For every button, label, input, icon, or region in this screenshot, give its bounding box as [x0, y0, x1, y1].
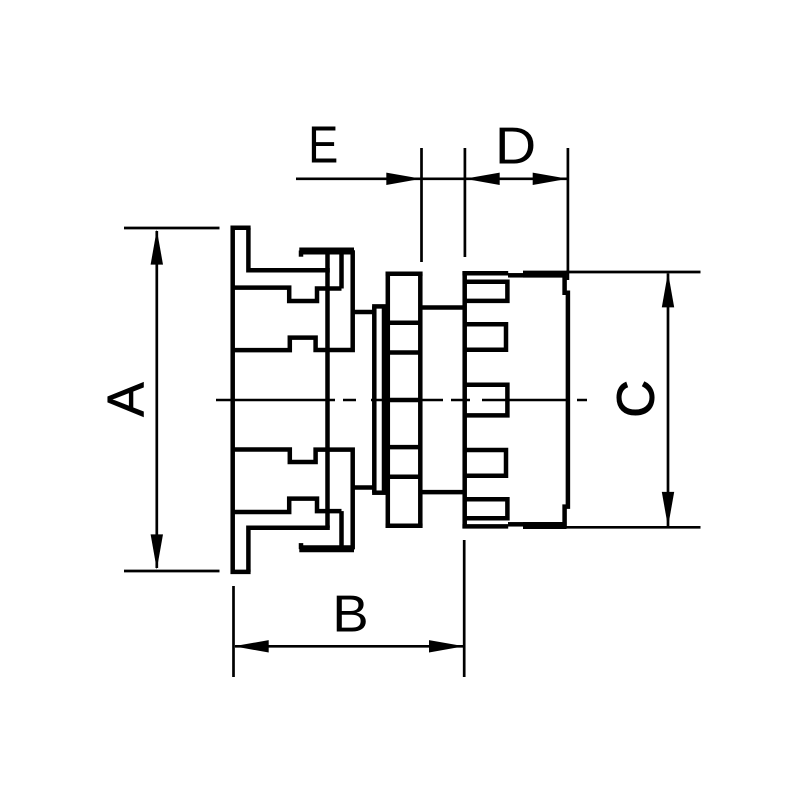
collet bottom edge	[462, 524, 508, 529]
sleeve top edge	[523, 271, 567, 276]
column divider 5	[388, 475, 421, 480]
claw upper inner edge	[339, 250, 344, 288]
column divider 2	[388, 350, 421, 355]
column divider 1	[388, 321, 421, 326]
dim B dimension line	[235, 645, 463, 648]
collet/sleeve top joint	[508, 273, 523, 278]
collet/sleeve bottom joint	[508, 522, 523, 527]
dim E extension line	[420, 148, 423, 262]
collet tooth 4	[463, 450, 506, 476]
lower face groove (notch up)	[233, 499, 342, 512]
dim C top extension line	[566, 271, 701, 274]
column bottom edge	[386, 524, 423, 529]
dim A top extension line	[124, 227, 220, 230]
dim B left arrowhead	[234, 640, 269, 652]
column right edge	[418, 274, 423, 526]
collet tooth 2	[463, 324, 506, 350]
sleeve bottom edge	[523, 524, 567, 529]
centerline dash 6	[577, 399, 587, 402]
dim D right arrowhead	[533, 173, 568, 185]
sleeve right edge with step	[565, 273, 568, 527]
dim D right extension line	[567, 148, 570, 280]
dim D left extension line	[464, 148, 467, 257]
column divider 3 (centerline)	[388, 398, 421, 403]
collet tooth 1	[463, 282, 507, 301]
dim E right arrowhead	[386, 173, 421, 185]
svg-text:A: A	[97, 382, 155, 417]
collet tooth 5	[463, 499, 507, 518]
collet top edge	[462, 271, 508, 276]
lip right edge + bottom step	[248, 528, 329, 572]
washer right edge	[382, 306, 387, 492]
centerline dash 1	[216, 399, 335, 402]
collet tooth 3 (center)	[463, 385, 507, 416]
upper-mid step with notch up + claw outer edge up	[233, 250, 353, 350]
dim B left extension line	[232, 586, 235, 677]
svg-text:D: D	[495, 117, 536, 175]
centerline dash 4	[451, 399, 470, 402]
centerline dash 2	[343, 399, 356, 402]
dim B right arrowhead	[429, 640, 464, 652]
claw upper ledge to washer	[351, 310, 375, 315]
column left edge	[386, 274, 391, 526]
dim C down arrowhead	[662, 492, 674, 527]
washer bottom cap	[372, 490, 388, 495]
svg-text:E: E	[308, 117, 338, 175]
dim C bottom extension line	[566, 526, 701, 529]
centerline dash 3	[371, 399, 443, 402]
dim A down arrowhead	[151, 534, 163, 569]
dim C up arrowhead	[662, 272, 674, 307]
column top edge	[386, 272, 423, 277]
dim C dimension line	[667, 274, 670, 527]
column divider 4	[388, 445, 421, 450]
dim D left arrowhead	[465, 173, 500, 185]
dim A dimension line	[155, 231, 158, 568]
dim A bottom extension line	[124, 570, 220, 573]
dim E/D shared dimension line	[296, 177, 568, 180]
flange long right vertical	[325, 250, 330, 528]
washer top cap	[372, 304, 388, 309]
arrows (solid)	[151, 173, 675, 653]
collet left edge	[462, 272, 467, 528]
washer left edge	[372, 306, 377, 492]
lip right edge + top step	[248, 228, 329, 271]
lower-mid step with notch down + claw outer edge down	[233, 450, 353, 550]
claw lower bar hook	[299, 543, 304, 549]
dim B right extension line	[463, 540, 466, 677]
claw upper bar hook	[299, 251, 304, 257]
upper face groove (notch down)	[233, 288, 342, 301]
svg-text:B: B	[332, 586, 368, 644]
claw lower bar	[299, 545, 354, 552]
hub bottom edge	[420, 490, 464, 495]
claw lower ledge to washer	[351, 485, 375, 490]
claw upper bar	[299, 248, 354, 255]
svg-text:C: C	[607, 380, 665, 418]
hub top edge	[420, 305, 464, 310]
dim A up arrowhead	[151, 230, 163, 265]
centerline dash 5	[482, 399, 566, 402]
flange outer: lip top, left edge, lip bottom	[233, 228, 251, 572]
claw lower inner edge	[339, 511, 344, 549]
